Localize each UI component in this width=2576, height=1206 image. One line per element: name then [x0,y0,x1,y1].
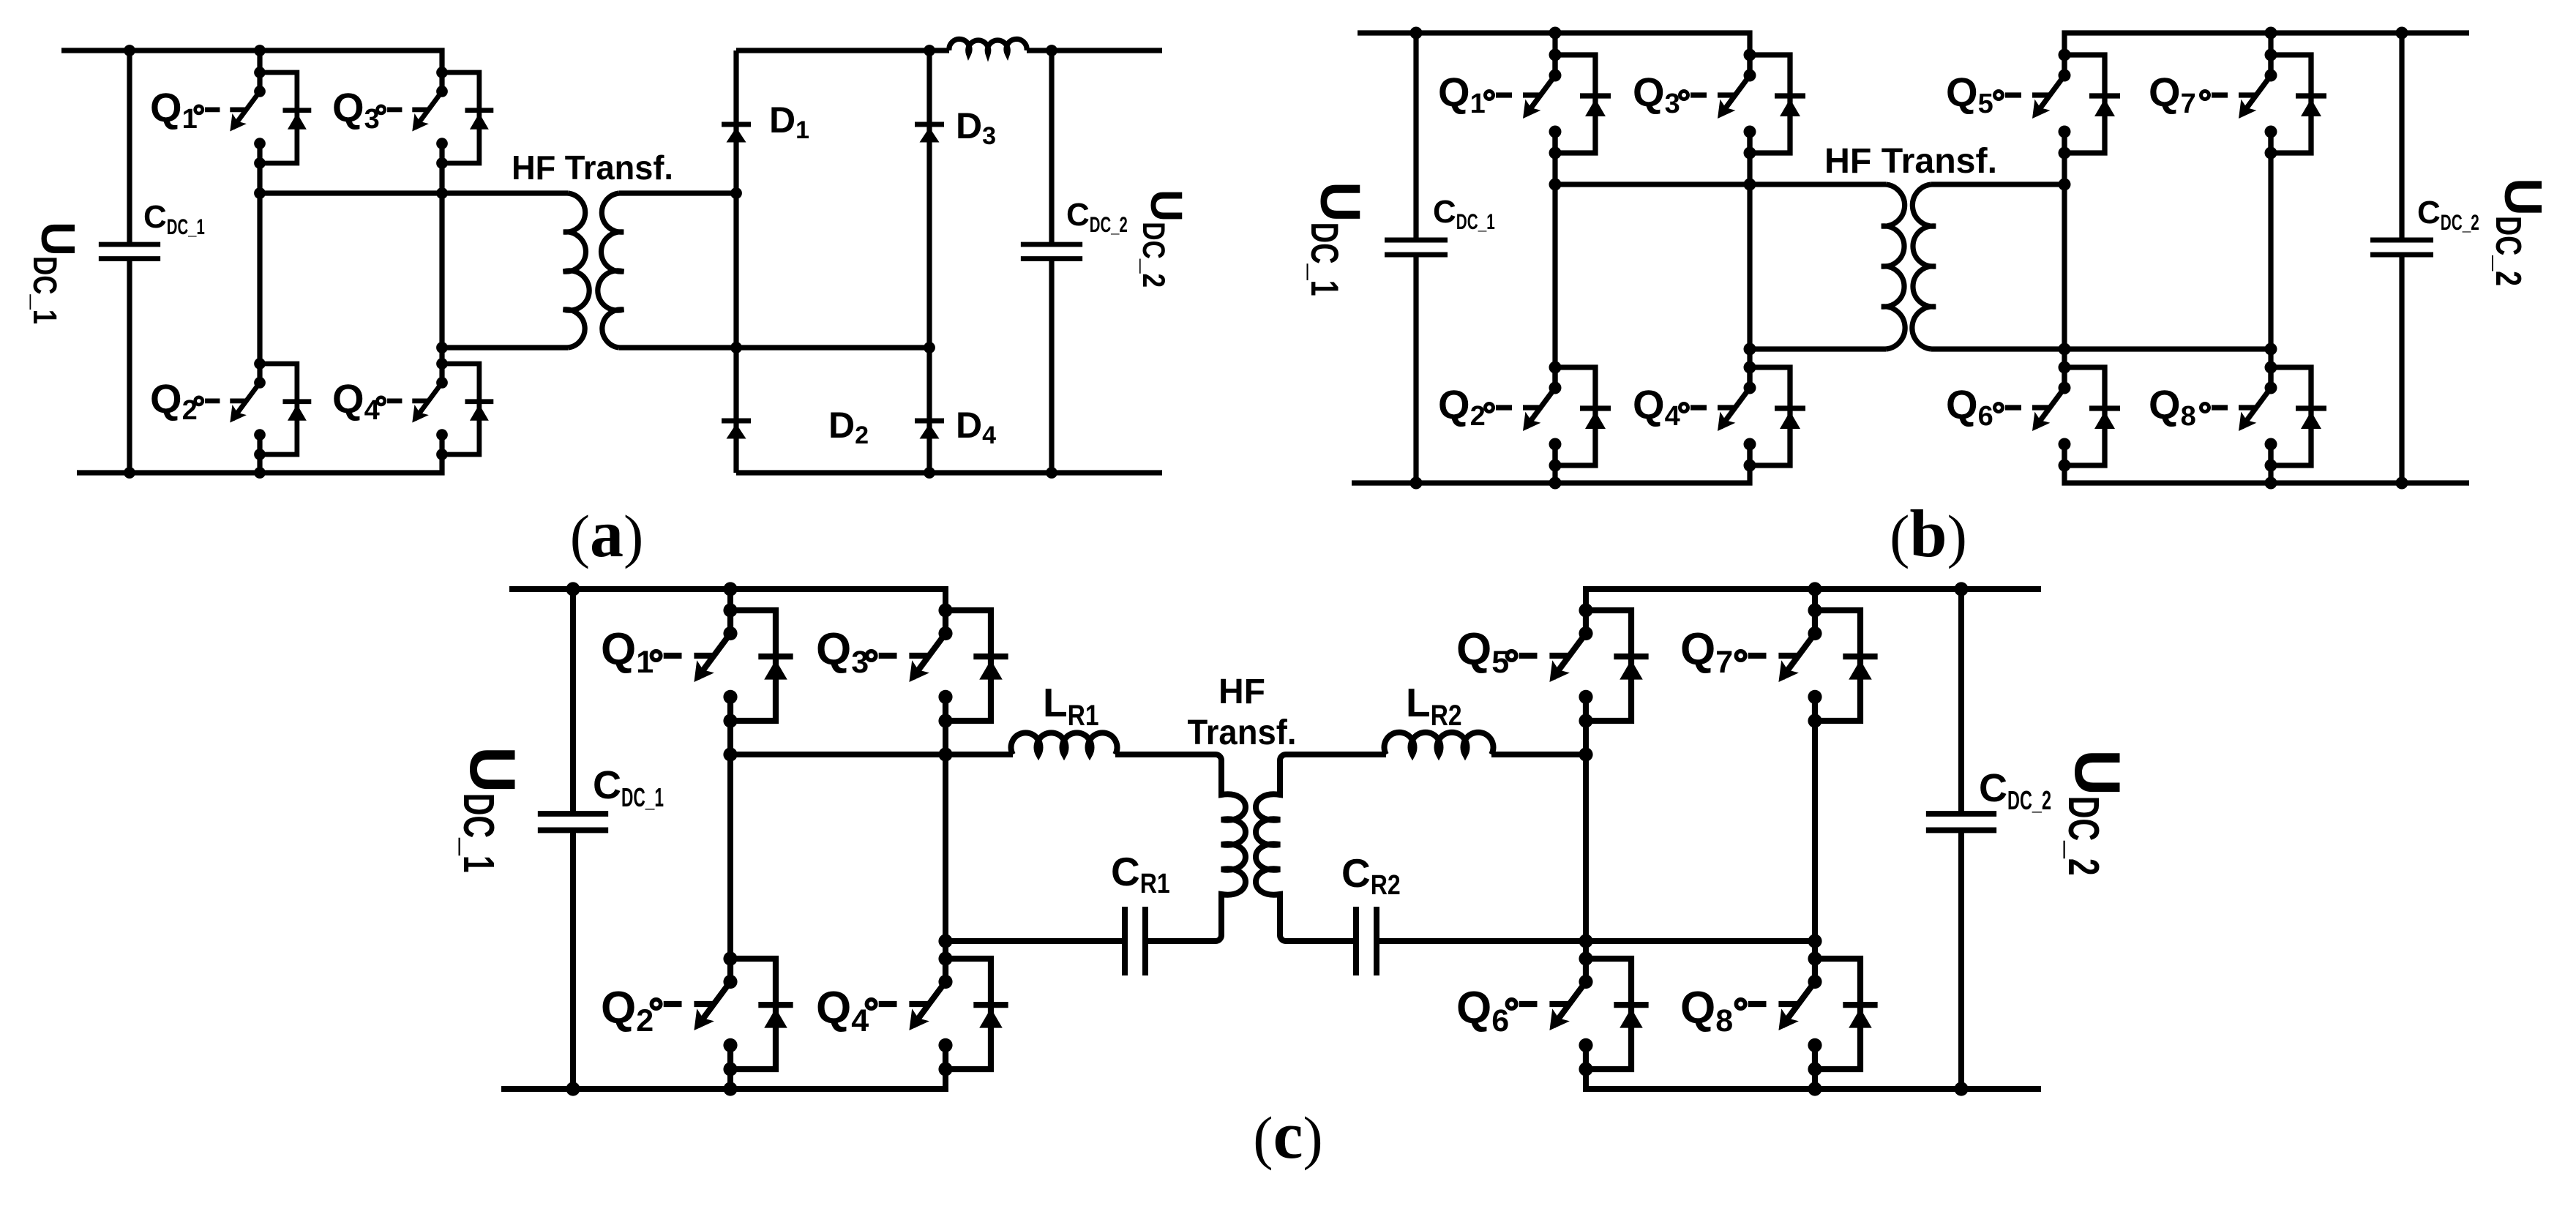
svg-text:(a): (a) [570,496,644,571]
wire phase B to C_R1 (c) [946,938,1125,944]
wire L_R1 to transformer (c) [1115,752,1216,757]
wire top rail (c) right bridge [1586,589,2041,634]
wire L_R2 to Q5 leg (c) [1491,752,1586,757]
wire C_DC_2 lower lead (a) [1049,259,1054,473]
node bottom rail / C_DC_1 (b) [1410,477,1423,490]
wire phase A to transformer (b) [1555,181,1886,187]
switch Q7 (c) [1736,603,1877,727]
wire rectifier left leg (a) [733,50,738,473]
svg-text:HF: HF [1218,673,1265,711]
diode D3 (a) [915,124,944,143]
node top rail / C_DC_2 (b) [2396,27,2408,40]
wire Q3-Q4 leg mid (b) [1747,132,1752,388]
switch Q1 (b) [1486,49,1611,160]
inductor L_R2 [1384,733,1493,754]
switch Q5 (b) [1995,49,2121,160]
node top rail / Q7 leg (c) [1808,582,1821,596]
switch Q8 (b) [2201,362,2327,472]
capacitor C_R1 [1125,907,1145,975]
wire rectifier top rail right (a) [1027,48,1162,53]
wire Q1-Q2 leg mid (b) [1552,132,1557,388]
node top rail / C_DC_1 (c) [566,582,580,596]
node crossing secondary bottom / Q5 leg (b) [2059,343,2071,356]
transformer primary winding (c) [1216,754,1246,941]
capacitor C_DC_2 (c) [1926,814,1996,830]
wire Q7 leg top (b) [2268,33,2273,75]
wire right leg mid (a) [439,143,444,383]
wire top rail (a) left bridge [61,50,442,91]
wire bottom rail (a) left bridge [77,435,442,473]
switch Q3 (b) [1680,49,1806,160]
wire Q2 to bottom rail (c) [727,1045,733,1089]
wire top rail (b) right bridge [2064,33,2469,75]
node bottom rail / Q2 leg (c) [723,1082,737,1095]
node phase A (b) [1549,179,1562,191]
node bottom rail / Q8 leg (c) [1808,1082,1821,1095]
wire phase A to L_R1 (c) [730,752,1013,757]
wire Q8 to bottom rail (b) [2268,444,2273,483]
node bottom rail / C_DC_2 (c) [1954,1082,1968,1095]
node top rail / C_DC_1 (b) [1410,27,1423,40]
node top rail / Q1 leg (a) [254,45,266,56]
wire bottom rail (b) right bridge [2064,444,2469,483]
inductor output filter (a) [949,39,1027,53]
node secondary bottom / Q7 leg (b) [2265,343,2277,356]
transformer secondary winding (c) [1256,754,1286,941]
wire C_DC_1 lower lead (b) [1413,255,1418,483]
transformer secondary winding (b) [1912,184,1936,349]
wire C_DC_1 upper lead (c) [570,589,576,814]
node bottom rail / Q2 leg (a) [254,467,266,479]
diode D1 (a) [722,124,751,143]
svg-text:(b): (b) [1890,496,1967,571]
wire rectifier right leg (a) [926,50,932,473]
wire secondary bottom to rectifier (a) [619,345,929,350]
node phase B (c) [938,934,952,948]
capacitor C_DC_1 (c) [538,814,608,830]
node crossing phase A / Q3 leg (c) [938,747,952,761]
svg-text:(c): (c) [1253,1098,1322,1172]
wire C_DC_2 lower lead (b) [2399,255,2404,483]
wire Q7-Q8 leg mid (b) [2268,132,2273,388]
switch Q5 (c) [1507,603,1648,727]
node top rail / C_DC_1 (a) [124,45,135,56]
wire Q7 leg top (c) [1812,589,1818,634]
node top rail / Q1 leg (c) [723,582,737,596]
wire bottom rail (c) right bridge [1586,1045,2041,1089]
wire rectifier bottom rail (a) [736,470,1162,475]
wire C_DC_1 lower lead (c) [570,831,576,1089]
node secondary top / Q5 leg (c) [1579,747,1592,761]
capacitor C_DC_1 (b) [1385,240,1448,255]
diode D4 (a) [915,421,944,439]
node bottom rail / C_DC_1 (a) [124,467,135,479]
wire C_DC_1 upper lead (b) [1413,33,1418,240]
wire phase A to transformer (a) [260,190,568,195]
node bottom rail / Q8 leg (b) [2265,477,2277,490]
node crossing secondary bottom / Q5 leg (c) [1579,934,1592,948]
transformer secondary winding (a) [598,193,624,348]
wire C_R1 to transformer (c) [1145,938,1216,944]
switch Q8 (c) [1736,951,1877,1076]
node secondary top / D leg (a) [730,187,742,199]
wire rectifier top rail (a) [736,48,949,53]
wire Q7-Q8 leg mid (c) [1812,697,1818,982]
node secondary top / Q5 leg (b) [2059,179,2071,191]
node phase A (a) [254,187,266,199]
node top rail / D3 leg (a) [924,45,935,56]
wire phase B to transformer (a) [442,345,568,350]
node crossing phase A / Q3 leg (a) [436,187,448,199]
wire C_DC_1 upper lead (a) [127,50,132,244]
wire bottom rail (c) left bridge [501,1045,946,1089]
wire Q1 leg top (a) [257,50,262,91]
wire transformer to L_R2 (c) [1286,752,1386,757]
capacitor C_DC_2 (a) [1021,244,1082,259]
wire C_DC_2 upper lead (c) [1958,589,1964,814]
wire secondary top (b) [1931,181,2064,187]
transformer primary winding (a) [563,193,589,348]
wire bottom rail (b) left bridge [1352,444,1750,483]
wire Q5-Q6 leg mid (b) [2062,132,2067,388]
wire phase B to transformer (b) [1750,346,1886,351]
capacitor C_DC_2 (b) [2370,240,2433,255]
switch Q2 (c) [651,951,793,1076]
node top rail / Q1 leg (b) [1549,27,1562,40]
node secondary bottom / Q7 leg (c) [1808,934,1821,948]
switch Q6 (b) [1995,362,2121,472]
wire secondary top to rectifier (a) [619,190,736,195]
switch Q6 (c) [1507,951,1648,1076]
wire C_DC_2 upper lead (b) [2399,33,2404,240]
wire Q8 to bottom rail (c) [1812,1045,1818,1089]
switch Q1 (a) [195,67,312,169]
inductor L_R1 [1011,733,1117,754]
wire Q2 to bottom rail (b) [1552,444,1557,483]
wire Q1 leg top (b) [1552,33,1557,75]
wire C_R2 to Q7 leg (c) [1377,938,1815,944]
wire Q5-Q6 leg mid (c) [1583,697,1589,982]
switch Q2 (a) [195,358,312,460]
wire C_DC_2 upper lead (a) [1049,50,1054,244]
svg-text:HF Transf.: HF Transf. [512,149,673,187]
wire Q3-Q4 leg mid (c) [943,697,948,982]
transformer primary winding (b) [1882,184,1905,349]
wire top rail (c) left bridge [509,589,946,634]
node phase B (b) [1744,343,1756,356]
node top rail / Q7 leg (b) [2265,27,2277,40]
switch Q4 (c) [866,951,1008,1076]
node bottom rail / C_DC_2 (b) [2396,477,2408,490]
node crossing phase A / Q3 leg (b) [1744,179,1756,191]
node top rail / C_DC_2 (a) [1046,45,1057,56]
capacitor C_DC_1 (a) [99,244,160,259]
wire C_DC_2 lower lead (c) [1958,831,1964,1089]
node bottom rail / Q2 leg (b) [1549,477,1562,490]
diode D2 (a) [722,421,751,439]
node bottom rail / D4 leg (a) [924,467,935,479]
node secondary bottom / D3 leg (a) [924,342,935,353]
switch Q2 (b) [1486,362,1611,472]
wire Q2 to bottom rail (a) [257,435,262,473]
node crossing secondary bottom / D1 leg (a) [730,342,742,353]
node top rail / C_DC_2 (c) [1954,582,1968,596]
wire Q1-Q2 leg mid (c) [727,697,733,982]
svg-text:HF Transf.: HF Transf. [1824,142,1997,181]
wire Q1 leg top (c) [727,589,733,634]
wire top rail (b) left bridge [1358,33,1750,75]
node phase B (a) [436,342,448,353]
capacitor C_R2 [1356,907,1377,975]
svg-text:Transf.: Transf. [1188,714,1297,752]
switch Q7 (b) [2201,49,2327,160]
switch Q3 (a) [378,67,494,169]
switch Q3 (c) [866,603,1008,727]
switch Q4 (b) [1680,362,1806,472]
switch Q4 (a) [378,358,494,460]
switch Q1 (c) [651,603,793,727]
wire transformer to C_R2 (c) [1286,938,1356,944]
wire C_DC_1 lower lead (a) [127,259,132,473]
wire left leg mid (a) [257,143,262,383]
node bottom rail / C_DC_2 (a) [1046,467,1057,479]
node phase A (c) [723,747,737,761]
node bottom rail / C_DC_1 (c) [566,1082,580,1095]
wire secondary bottom (b) [1931,346,2271,351]
